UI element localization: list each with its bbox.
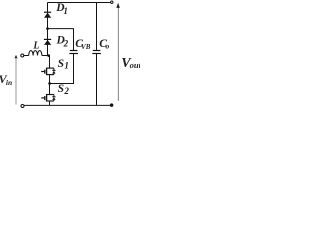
Vout arrow (117, 4, 120, 101)
svg-text:in: in (6, 78, 12, 87)
wire Co leg (96, 3, 98, 51)
svg-text:1: 1 (64, 61, 69, 71)
transistor S1 (41, 68, 55, 76)
node midpoint junction (48, 82, 51, 85)
svg-text:2: 2 (63, 86, 69, 96)
svg-text:S: S (58, 58, 64, 70)
label D2 (56, 34, 69, 48)
label Co (99, 38, 109, 51)
svg-text:S: S (58, 83, 64, 95)
label S1 (58, 58, 69, 71)
wire Co bottom (96, 54, 98, 106)
label S2 (58, 83, 70, 96)
label Vin (0, 72, 12, 87)
label CVB (75, 38, 91, 51)
diode D2 (44, 39, 51, 45)
wire bottom rail (24, 104, 111, 106)
inductor L (29, 51, 42, 56)
svg-text:1: 1 (63, 6, 68, 16)
wire CVB bottom to midpoint (50, 54, 74, 84)
node switch junction (47, 54, 50, 57)
terminal Vin- (21, 105, 24, 108)
terminal Vin+ (21, 54, 24, 57)
Vin arrow (15, 56, 17, 105)
svg-text:o: o (106, 42, 110, 51)
wire Vin+ to inductor (24, 55, 29, 57)
label D1 (55, 2, 68, 16)
node output+ terminal dot (111, 1, 113, 3)
node output- terminal dot (110, 104, 113, 107)
svg-text:2: 2 (63, 39, 69, 49)
wire S2 source to bottom rail (49, 101, 51, 105)
wire top rail (48, 2, 112, 4)
svg-text:L: L (32, 41, 39, 52)
svg-text:out: out (130, 60, 140, 70)
transistor S2 (41, 94, 55, 102)
diode D1 (44, 12, 51, 18)
node junction D1-D2 to CVB (46, 27, 49, 30)
wire switch node to S1 drain (49, 56, 51, 69)
label Vout (121, 56, 141, 71)
capacitor Co (92, 51, 101, 54)
capacitor CVB (69, 51, 78, 54)
wire diode leg (47, 3, 49, 56)
wire to CVB top (48, 29, 74, 51)
wire switch node (42, 55, 50, 57)
svg-text:VB: VB (81, 43, 91, 51)
wire S1 source to S2 drain (49, 75, 51, 95)
